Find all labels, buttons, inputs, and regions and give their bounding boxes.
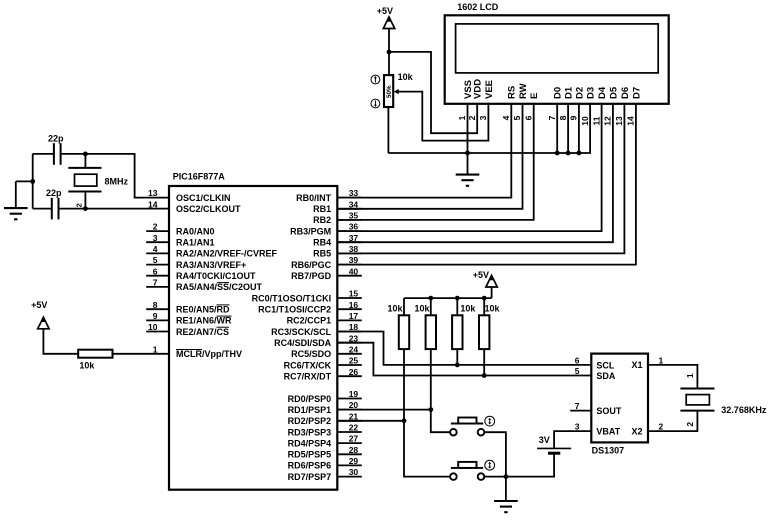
svg-text:6: 6	[523, 115, 533, 120]
wire (VDD pin 2 to +5V rail)	[389, 52, 477, 133]
svg-text:RB2: RB2	[313, 215, 331, 225]
svg-text:5: 5	[512, 115, 522, 120]
svg-text:VBAT: VBAT	[596, 426, 620, 436]
svg-text:RA2/AN2/VREF-/CVREF: RA2/AN2/VREF-/CVREF	[176, 249, 278, 259]
ground (below LCD)	[467, 153, 469, 175]
push button 1 (upper)	[450, 429, 457, 436]
svg-text:22p: 22p	[46, 188, 62, 198]
svg-text:4: 4	[153, 244, 158, 254]
wire SCL (RC3 pin 18 to DS1307 SCL)	[337, 332, 590, 365]
svg-text:30: 30	[349, 467, 359, 477]
svg-text:8: 8	[558, 115, 568, 120]
wire (ground bus under LCD, pot bottom to D3)	[388, 104, 590, 153]
svg-text:RB0/INT: RB0/INT	[296, 193, 332, 203]
svg-text:7: 7	[547, 115, 557, 120]
svg-text:34: 34	[349, 199, 359, 209]
svg-text:MCLR/Vpp/THV: MCLR/Vpp/THV	[176, 349, 242, 359]
wire (left vertical joining the two 22p capacitors)	[32, 154, 34, 209]
pin 35 RB2 (right)	[337, 219, 362, 221]
svg-text:D4: D4	[597, 86, 608, 99]
resistor R5 10k (pull-up)	[483, 298, 485, 315]
svg-text:22p: 22p	[48, 134, 64, 144]
node (rail junction R5)	[482, 296, 487, 301]
pin 34 RB1 (right)	[337, 208, 362, 210]
svg-text:RD4/PSP4: RD4/PSP4	[288, 438, 332, 448]
wire (bottom rail from caps to OSC2 pin 14)	[33, 208, 52, 210]
svg-text:10k: 10k	[79, 360, 95, 370]
svg-text:RC0/T1OSO/T1CKI: RC0/T1OSO/T1CKI	[252, 293, 332, 303]
svg-text:RC1/T1OSI/CCP2: RC1/T1OSI/CCP2	[258, 305, 331, 315]
svg-text:3: 3	[575, 422, 580, 432]
svg-text:D2: D2	[574, 87, 585, 99]
button 2 actuator icon	[485, 460, 495, 470]
wire (RB2 to E)	[337, 104, 533, 220]
svg-text:5: 5	[153, 255, 158, 265]
pin 3 RA1/AN1 (left)	[146, 241, 169, 243]
svg-text:X1: X1	[631, 360, 642, 370]
svg-text:RB3/PGM: RB3/PGM	[290, 226, 331, 236]
svg-text:D0: D0	[553, 87, 564, 99]
pin 26 RC7/RX/DT (right)	[337, 375, 362, 377]
pin 33 RB0/INT (right)	[337, 197, 362, 199]
svg-text:RB5: RB5	[313, 249, 331, 259]
pin 39 RB6/PGC (right)	[337, 264, 362, 266]
svg-text:SCL: SCL	[596, 360, 615, 370]
svg-text:23: 23	[349, 333, 359, 343]
svg-text:RC3/SCK/SCL: RC3/SCK/SCL	[271, 327, 332, 337]
svg-text:29: 29	[349, 456, 359, 466]
svg-text:27: 27	[349, 434, 359, 444]
pin 40 RB7/PGD (right)	[337, 275, 362, 277]
svg-text:28: 28	[349, 445, 359, 455]
svg-text:SOUT: SOUT	[596, 406, 622, 416]
svg-text:OSC2/CLKOUT: OSC2/CLKOUT	[176, 204, 241, 214]
svg-text:RC7/RX/DT: RC7/RX/DT	[284, 372, 332, 382]
node (crystal top junction)	[83, 152, 88, 157]
svg-text:9: 9	[153, 311, 158, 321]
wire (RB6 to D7)	[337, 104, 636, 265]
svg-text:D3: D3	[586, 87, 597, 99]
svg-text:RC5/SDO: RC5/SDO	[291, 349, 331, 359]
svg-text:D6: D6	[620, 87, 631, 99]
svg-text:RC4/SDI/SDA: RC4/SDI/SDA	[274, 338, 332, 348]
svg-text:11: 11	[591, 116, 601, 125]
svg-text:1: 1	[685, 373, 695, 378]
svg-text:RB1: RB1	[313, 204, 331, 214]
svg-text:10: 10	[580, 116, 590, 126]
pin 15 RC0/T1OSO/T1CKI (right)	[337, 297, 362, 299]
op: display LCD1 1602 LCD body	[445, 15, 669, 104]
pin 2 RA0/AN0 (left)	[146, 230, 169, 232]
pin 37 RB4 (right)	[337, 241, 362, 243]
battery BT1 3V	[537, 447, 571, 449]
pin 20 RD1/PSP1 (right)	[337, 409, 362, 411]
pin 30 RD7/PSP7 (right)	[337, 476, 362, 478]
wire (ground junction to battery)	[506, 454, 554, 477]
svg-text:22: 22	[349, 423, 359, 433]
svg-text:25: 25	[349, 356, 359, 366]
resistor R2 10k (pull-up)	[403, 298, 405, 315]
pin 7 SOUT (DS1307)	[570, 410, 591, 412]
svg-text:RD1/PSP1: RD1/PSP1	[288, 405, 332, 415]
svg-text:RD0/PSP0: RD0/PSP0	[288, 394, 332, 404]
capacitor C2 22p (bottom)	[51, 198, 53, 220]
pin 28 RD5/PSP5 (right)	[337, 453, 362, 455]
wire (RD1 pin 20 to button 1)	[337, 409, 431, 411]
svg-text:10k: 10k	[460, 303, 476, 313]
wire (pot wiper to VEE pin 3)	[399, 92, 489, 141]
svg-text:13: 13	[148, 188, 158, 198]
svg-text:24: 24	[349, 344, 359, 354]
pin 10 RE2/AN7/CS (left)	[146, 331, 169, 333]
svg-text:D1: D1	[564, 86, 575, 99]
wire (ground branch to caps)	[16, 180, 33, 182]
pot decrement arrow	[371, 99, 380, 108]
svg-text:5: 5	[575, 366, 580, 376]
pin 27 RD4/PSP4 (right)	[337, 442, 362, 444]
wire (resistor to MCLR pin 1)	[113, 353, 170, 355]
svg-text:2: 2	[74, 203, 83, 207]
node (rail junction R3)	[428, 296, 433, 301]
svg-text:10k: 10k	[398, 72, 414, 82]
op: microcontroller U1 PIC16F877A body	[169, 186, 337, 490]
button 1 actuator icon	[485, 416, 495, 426]
op: RTC U2 DS1307 body	[591, 354, 648, 443]
push button 2 (lower)	[450, 473, 457, 480]
pin 17 RC2/CCP1 (right)	[337, 319, 362, 321]
wire (battery + to VBAT pin 3)	[554, 431, 591, 448]
wire (down to button 1 left contact)	[431, 410, 451, 433]
wire (+5V to pot top)	[388, 29, 390, 76]
svg-text:36: 36	[349, 222, 359, 232]
wire (X2 to watch crystal)	[648, 411, 697, 432]
svg-text:3: 3	[153, 233, 158, 243]
svg-text:3: 3	[478, 115, 488, 120]
node (VSS/ground bus junction)	[465, 151, 470, 156]
svg-text:SDA: SDA	[596, 371, 616, 381]
svg-text:2: 2	[685, 422, 695, 427]
svg-text:RA3/AN3/VREF+: RA3/AN3/VREF+	[176, 260, 246, 270]
svg-text:3V: 3V	[539, 435, 550, 445]
pin 23 RC4/SDI/SDA (right)	[337, 342, 362, 344]
pin 8 RE0/AN5/RD (left)	[146, 308, 169, 310]
pin 6 RA4/T0CKI/C1OUT (left)	[146, 275, 169, 277]
svg-text:RE2/AN7/CS: RE2/AN7/CS	[176, 327, 229, 337]
svg-text:7: 7	[575, 401, 580, 411]
wire (RB0 to RS)	[337, 104, 511, 198]
svg-text:10k: 10k	[387, 303, 403, 313]
svg-text:RD6/PSP6: RD6/PSP6	[288, 461, 332, 471]
pin 9 RE1/AN6/WR (left)	[146, 319, 169, 321]
wire (RB5 to D6)	[337, 104, 624, 254]
svg-text:40: 40	[349, 266, 359, 276]
svg-text:2: 2	[153, 222, 158, 232]
svg-text:RS: RS	[507, 86, 518, 99]
ground (left of crystal)	[15, 181, 17, 208]
svg-text:1602 LCD: 1602 LCD	[457, 2, 499, 12]
svg-text:9: 9	[569, 115, 579, 120]
ground (buttons / battery)	[505, 477, 507, 501]
node (D1 junction)	[566, 151, 571, 156]
svg-text:10k: 10k	[414, 303, 430, 313]
svg-text:+5V: +5V	[473, 270, 489, 280]
svg-text:8: 8	[153, 300, 158, 310]
svg-text:RB6/PGC: RB6/PGC	[291, 260, 332, 270]
wire (top rail from caps to OSC1 pin 13)	[33, 153, 54, 155]
svg-text:RA1/AN1: RA1/AN1	[176, 238, 215, 248]
pin 7 RA5/AN4/SS/C2OUT (left)	[146, 286, 169, 288]
svg-text:8MHz: 8MHz	[105, 176, 129, 186]
crystal X1 8MHz	[84, 154, 86, 168]
resistor R1 10k (MCLR pull-up)	[78, 350, 112, 358]
wire (pull-up top rail)	[404, 297, 492, 299]
svg-text:17: 17	[349, 311, 359, 321]
potentiometer RV1 (contrast)	[384, 75, 393, 107]
svg-text:12: 12	[603, 116, 613, 126]
node (D0 junction)	[555, 151, 560, 156]
svg-text:50%: 50%	[386, 85, 393, 98]
wire (D0 to ground bus)	[556, 104, 558, 153]
svg-text:4: 4	[501, 115, 511, 120]
svg-text:OSC1/CLKIN: OSC1/CLKIN	[176, 193, 231, 203]
svg-text:19: 19	[349, 389, 359, 399]
node (D2 junction)	[577, 151, 582, 156]
svg-text:10: 10	[148, 322, 158, 332]
pin 19 RD0/PSP0 (right)	[337, 398, 362, 400]
pin 4 RA2/AN2/VREF-/CVREF (left)	[146, 252, 169, 254]
svg-text:10k: 10k	[484, 303, 500, 313]
power +5V (above potentiometer)	[383, 17, 394, 29]
svg-text:6: 6	[575, 356, 580, 366]
power +5V (MCLR pull-up)	[38, 317, 49, 329]
power +5V (I2C pull-ups)	[486, 275, 497, 287]
wire (button 2 right contact to ground)	[484, 476, 506, 478]
node (R2 / RD2 junction)	[402, 418, 407, 423]
node (crystal bottom junction)	[83, 206, 88, 211]
wire (+5V to resistor)	[43, 329, 78, 354]
svg-text:RD7/PSP7: RD7/PSP7	[288, 472, 332, 482]
svg-text:RC6/TX/CK: RC6/TX/CK	[284, 360, 332, 370]
svg-text:RD3/PSP3: RD3/PSP3	[288, 427, 332, 437]
svg-text:RA4/T0CKI/C1OUT: RA4/T0CKI/C1OUT	[176, 271, 256, 281]
capacitor C1 22p (top)	[53, 143, 55, 165]
wire (VSS pin 1 to ground)	[467, 104, 469, 153]
pin 22 RD3/PSP3 (right)	[337, 431, 362, 433]
svg-text:DS1307: DS1307	[592, 445, 625, 455]
pin 24 RC5/SDO (right)	[337, 353, 362, 355]
wire (X1 to watch crystal)	[648, 365, 697, 389]
svg-text:6: 6	[153, 266, 158, 276]
wire (button 1 right contact to ground rail)	[484, 432, 506, 476]
svg-text:33: 33	[349, 188, 359, 198]
pin 36 RB3/PGM (right)	[337, 230, 362, 232]
wire (RB3 to D4)	[337, 104, 601, 231]
pin 38 RB5 (right)	[337, 252, 362, 254]
svg-text:RW: RW	[518, 83, 529, 99]
svg-text:RC2/CCP1: RC2/CCP1	[287, 316, 332, 326]
svg-text:RE0/AN5/RD: RE0/AN5/RD	[176, 305, 230, 315]
svg-text:E: E	[529, 93, 540, 99]
svg-text:RB7/PGD: RB7/PGD	[291, 271, 332, 281]
svg-text:32.768KHz: 32.768KHz	[721, 405, 767, 415]
svg-text:+5V: +5V	[377, 6, 393, 16]
svg-text:14: 14	[626, 116, 636, 126]
wire (pot bottom to ground bus)	[387, 107, 389, 153]
pot increment arrow	[371, 75, 380, 84]
pin 5 RA3/AN3/VREF+ (left)	[146, 264, 169, 266]
svg-text:14: 14	[148, 199, 158, 209]
svg-text:26: 26	[349, 367, 359, 377]
svg-text:RD5/PSP5: RD5/PSP5	[288, 450, 332, 460]
svg-text:16: 16	[349, 300, 359, 310]
pin 18 RC3/SCK/SCL (right)	[337, 331, 362, 333]
node (SCL pull-up junction)	[455, 363, 460, 368]
wire (D2 to ground bus)	[578, 104, 580, 153]
wire (RB4 to D5)	[337, 104, 613, 242]
node (button ground junction)	[504, 474, 509, 479]
svg-text:D7: D7	[631, 87, 642, 99]
wire (RD2 pin 21 to button 2)	[337, 420, 404, 422]
svg-text:+5V: +5V	[31, 300, 47, 310]
svg-text:RE1/AN6/WR: RE1/AN6/WR	[176, 316, 232, 326]
node (R3 / RD1 junction)	[428, 407, 433, 412]
wire (RB1 to RW)	[337, 104, 522, 209]
pin 16 RC1/T1OSI/CCP2 (right)	[337, 308, 362, 310]
svg-text:PIC16F877A: PIC16F877A	[173, 171, 226, 181]
svg-text:X2: X2	[631, 426, 642, 436]
node (+5V branch to VDD)	[387, 50, 392, 55]
resistor R4 10k (pull-up)	[456, 298, 458, 315]
node (SDA pull-up junction)	[482, 373, 487, 378]
pin 21 RD2/PSP2 (right)	[337, 420, 362, 422]
svg-text:VEE: VEE	[484, 80, 495, 99]
wire (down to button 2 left contact)	[404, 421, 450, 477]
svg-text:1: 1	[153, 344, 158, 354]
svg-text:RA0/AN0: RA0/AN0	[176, 226, 215, 236]
pin 29 RD6/PSP6 (right)	[337, 464, 362, 466]
svg-text:RA5/AN4/SS/C2OUT: RA5/AN4/SS/C2OUT	[176, 282, 263, 292]
pin 25 RC6/TX/CK (right)	[337, 364, 362, 366]
crystal X2 32.768KHz	[680, 388, 714, 390]
wire (D1 to ground bus)	[567, 104, 569, 153]
node (junction of ground branch and cap rail)	[30, 179, 35, 184]
svg-text:RD2/PSP2: RD2/PSP2	[288, 416, 332, 426]
svg-text:D5: D5	[608, 86, 619, 99]
resistor R3 10k (pull-up)	[430, 298, 432, 315]
svg-text:15: 15	[349, 289, 359, 299]
node (rail junction R4)	[455, 296, 460, 301]
svg-text:VDD: VDD	[473, 79, 484, 99]
svg-text:RB4: RB4	[313, 238, 331, 248]
wire SDA (RC4 pin 23 to DS1307 SDA)	[337, 343, 590, 376]
svg-text:7: 7	[153, 278, 158, 288]
svg-text:13: 13	[614, 116, 624, 126]
svg-text:1: 1	[457, 115, 467, 120]
